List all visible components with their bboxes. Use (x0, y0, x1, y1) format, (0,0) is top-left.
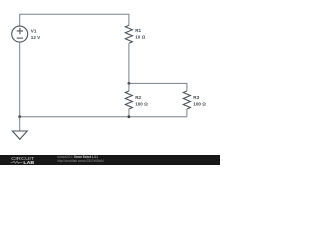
svg-text:100 Ω: 100 Ω (135, 101, 148, 106)
wire top from V1 to R1 (20, 14, 129, 26)
svg-text:R3: R3 (193, 95, 199, 100)
wire R3 down to bottom rail (186, 109, 188, 117)
watermark bar (0, 155, 220, 165)
ground (12, 131, 27, 139)
CircuitLab logo squiggle (11, 161, 23, 163)
node C junction dot at ground tee (18, 115, 21, 118)
wire R2 down to bottom rail (128, 109, 130, 117)
resistor R1 (125, 25, 132, 43)
svg-text:V1: V1 (31, 29, 37, 34)
wire bottom rail (20, 116, 187, 118)
wire left rail V1 to bottom (19, 42, 21, 117)
svg-text:LAB: LAB (23, 160, 34, 165)
resistor R2 (125, 91, 132, 109)
svg-text:http://circuitlab.com/c/3307e9: http://circuitlab.com/c/3307e98b44 (57, 159, 104, 163)
svg-text:10 Ω: 10 Ω (135, 34, 145, 39)
wire ground stub (19, 117, 21, 131)
node B junction dot at R2 bottom (127, 115, 130, 118)
svg-text:12 V: 12 V (31, 35, 41, 40)
node A junction dot (127, 82, 130, 85)
voltage source V1 (12, 26, 28, 42)
svg-text:100 Ω: 100 Ω (193, 101, 206, 106)
svg-text:R1: R1 (135, 28, 141, 33)
resistor R3 (183, 91, 190, 109)
svg-text:R2: R2 (135, 95, 141, 100)
wire middle node A to R3 (129, 83, 187, 91)
wire node A to R2 (128, 83, 130, 91)
wire R1 down to node A (128, 43, 130, 83)
